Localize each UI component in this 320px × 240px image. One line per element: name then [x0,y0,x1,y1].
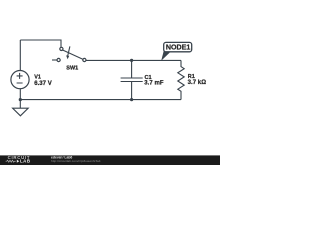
svg-text:3.7 mF: 3.7 mF [144,81,164,87]
svg-text:http://circuitlab.com/c/pt3uau: http://circuitlab.com/c/pt3uaumhrfw4 [51,159,101,163]
svg-text:6.37 V: 6.37 V [34,81,52,87]
svg-text:LAB: LAB [20,159,31,164]
svg-text:V1: V1 [34,75,41,81]
svg-text:SW1: SW1 [66,66,78,72]
svg-text:3.7 kΩ: 3.7 kΩ [188,80,207,86]
svg-text:NODE1: NODE1 [166,43,190,51]
